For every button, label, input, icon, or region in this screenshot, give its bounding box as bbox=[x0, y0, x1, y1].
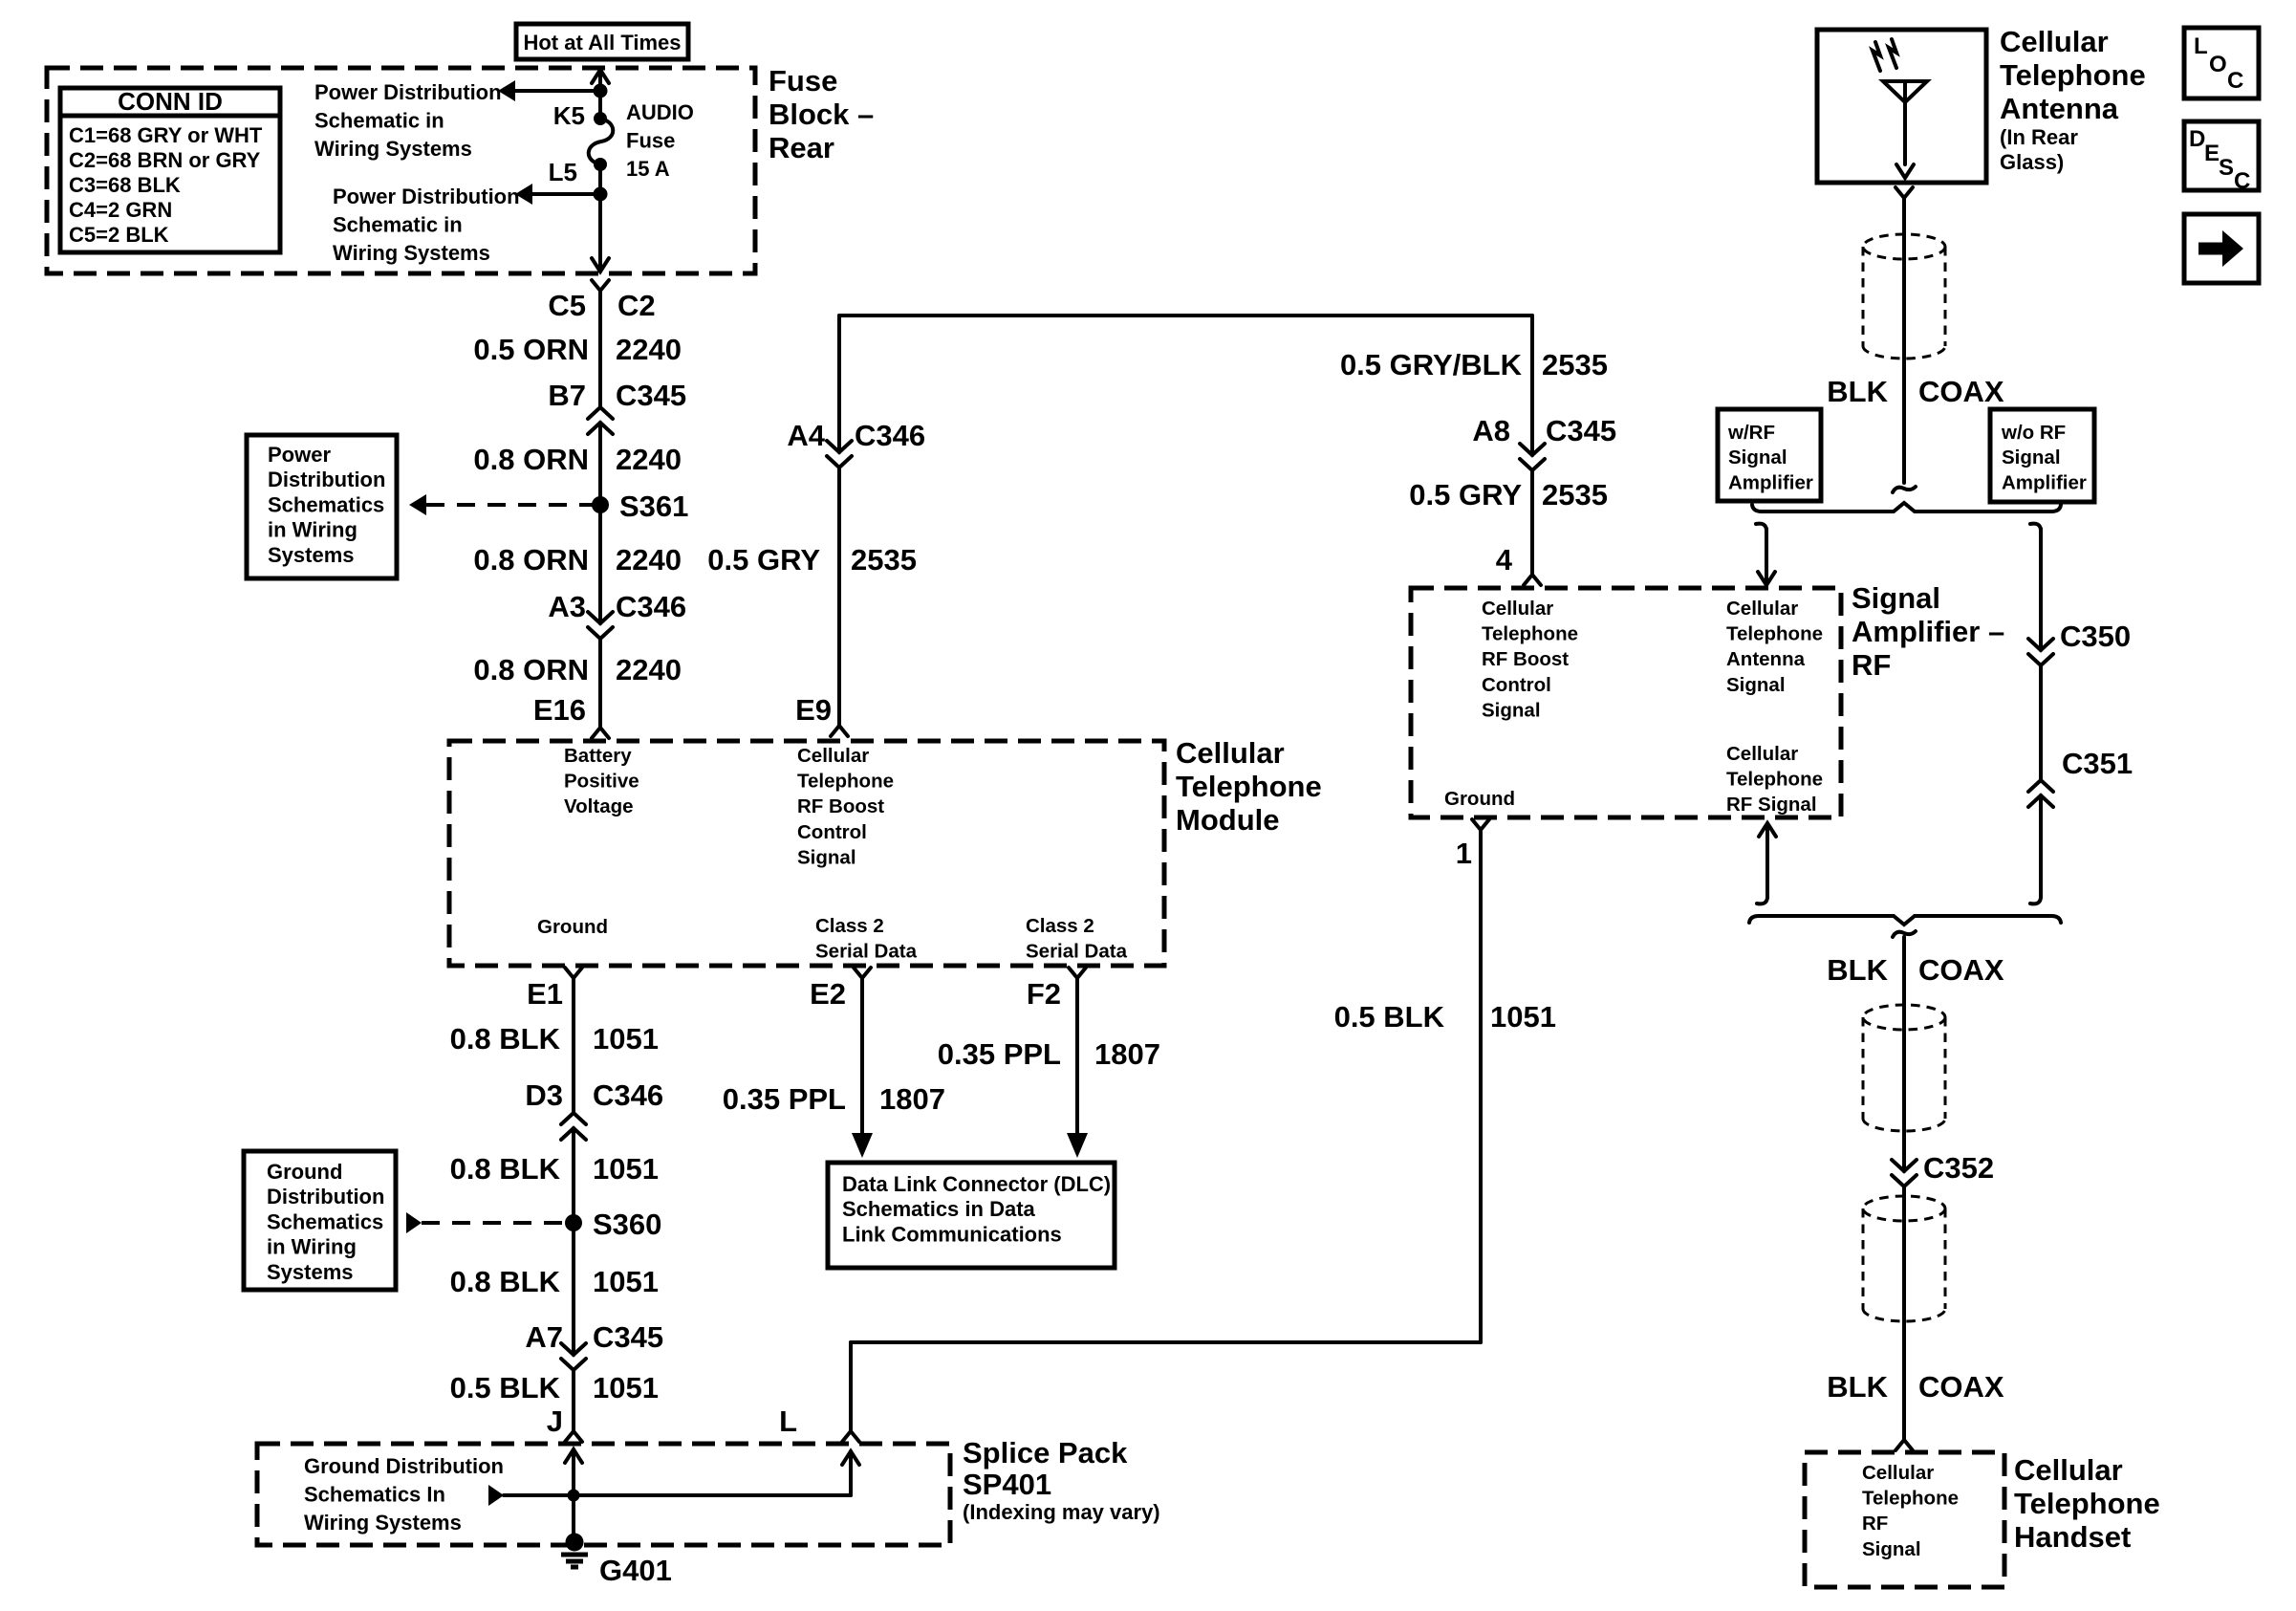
svg-text:0.8 BLK: 0.8 BLK bbox=[450, 1152, 561, 1186]
svg-text:S: S bbox=[2219, 155, 2234, 181]
svg-text:2240: 2240 bbox=[616, 443, 682, 476]
top coax brace bbox=[1752, 503, 2061, 512]
svg-text:Power Distribution: Power Distribution bbox=[333, 185, 520, 208]
connector C351 symbol bbox=[2028, 780, 2053, 807]
svg-text:0.8 BLK: 0.8 BLK bbox=[450, 1265, 561, 1298]
S360 dashed reference line bbox=[406, 1212, 422, 1233]
connector C346 symbol A4 bbox=[827, 441, 852, 468]
svg-text:Power Distribution: Power Distribution bbox=[314, 80, 502, 104]
junction dot bbox=[594, 84, 608, 98]
terminal K5 dot bbox=[594, 112, 607, 125]
svg-text:Telephone: Telephone bbox=[2000, 58, 2146, 92]
svg-text:1051: 1051 bbox=[1490, 1000, 1556, 1034]
connector C352 symbol bbox=[1892, 1160, 1917, 1186]
bypass branch upper bbox=[2030, 524, 2041, 536]
svg-text:E16: E16 bbox=[533, 693, 586, 727]
wire E9 riser bbox=[837, 316, 841, 452]
svg-text:1051: 1051 bbox=[593, 1371, 659, 1404]
svg-text:AUDIO: AUDIO bbox=[626, 100, 694, 124]
ground distribution schematics side box bbox=[244, 1151, 396, 1290]
conn id table bbox=[60, 88, 280, 252]
svg-text:C2: C2 bbox=[617, 289, 656, 322]
svg-text:Antenna: Antenna bbox=[1726, 648, 1806, 670]
svg-text:Power: Power bbox=[268, 443, 331, 467]
cellular telephone antenna box bbox=[1817, 30, 1986, 183]
w/RF signal amplifier box bbox=[1718, 409, 1821, 501]
antenna coax flare bbox=[1895, 187, 1913, 198]
svg-text:Distribution: Distribution bbox=[268, 468, 385, 491]
wire E2 serial data bbox=[860, 978, 864, 1135]
svg-text:A3: A3 bbox=[548, 590, 586, 623]
svg-text:CONN ID: CONN ID bbox=[118, 87, 223, 116]
svg-text:S361: S361 bbox=[619, 490, 688, 523]
svg-text:0.8 ORN: 0.8 ORN bbox=[473, 543, 589, 577]
svg-text:C345: C345 bbox=[616, 379, 686, 412]
svg-text:Fuse: Fuse bbox=[769, 64, 837, 98]
svg-text:E2: E2 bbox=[810, 977, 846, 1011]
wire 0.5 ORN 2240 bbox=[598, 291, 602, 407]
pin L flare bbox=[842, 1431, 859, 1442]
pin E16 flare bbox=[592, 728, 609, 738]
svg-text:C345: C345 bbox=[593, 1320, 663, 1354]
svg-text:in Wiring: in Wiring bbox=[268, 518, 357, 542]
splice S361 dot bbox=[592, 496, 609, 513]
svg-text:Block –: Block – bbox=[769, 98, 874, 131]
svg-text:Schematics: Schematics bbox=[267, 1209, 383, 1233]
svg-text:C4=2 GRN: C4=2 GRN bbox=[69, 198, 172, 222]
svg-text:Cellular: Cellular bbox=[1726, 743, 1798, 765]
splice pack L riser bbox=[849, 1451, 853, 1495]
handset coax wire lower bbox=[1902, 1186, 1906, 1440]
connector C345 symbol A8 bbox=[1520, 444, 1545, 470]
svg-text:Wiring Systems: Wiring Systems bbox=[314, 137, 472, 161]
svg-text:COAX: COAX bbox=[1918, 953, 2004, 987]
svg-text:Serial Data: Serial Data bbox=[815, 941, 918, 963]
S361 dashed reference line bbox=[409, 494, 426, 515]
antenna coax wire bbox=[1902, 198, 1906, 483]
svg-text:A8: A8 bbox=[1472, 414, 1510, 447]
svg-text:Schematic in: Schematic in bbox=[314, 108, 444, 132]
wire E9 top horizontal bbox=[839, 314, 1532, 317]
antenna symbol bbox=[1883, 81, 1927, 164]
svg-text:w/RF: w/RF bbox=[1727, 422, 1775, 444]
svg-text:Control: Control bbox=[797, 821, 867, 843]
ground G401 symbol bbox=[561, 1553, 588, 1557]
wire leaving fuse block bbox=[598, 194, 602, 272]
svg-text:1051: 1051 bbox=[593, 1265, 659, 1298]
terminal L5 dot bbox=[594, 158, 607, 171]
svg-text:COAX: COAX bbox=[1918, 375, 2004, 408]
svg-text:Class 2: Class 2 bbox=[815, 915, 884, 937]
splice pack bus arrow bbox=[488, 1485, 504, 1506]
svg-text:Hot at All Times: Hot at All Times bbox=[523, 31, 681, 54]
wire 0.8 ORN 2240 lower bbox=[598, 639, 602, 728]
svg-text:Telephone: Telephone bbox=[1862, 1488, 1959, 1510]
pin E1 flare bbox=[565, 968, 582, 978]
svg-text:1051: 1051 bbox=[593, 1152, 659, 1186]
handset coax squiggle bbox=[1893, 931, 1916, 937]
svg-text:Cellular: Cellular bbox=[1176, 736, 1285, 770]
svg-text:2240: 2240 bbox=[616, 543, 682, 577]
pin 4 flare bbox=[1524, 575, 1541, 585]
amp pin 1 flare bbox=[1472, 819, 1489, 830]
svg-text:0.8 ORN: 0.8 ORN bbox=[473, 443, 589, 476]
svg-text:Signal: Signal bbox=[1728, 446, 1787, 468]
svg-text:15 A: 15 A bbox=[626, 157, 670, 181]
svg-text:SP401: SP401 bbox=[963, 1468, 1051, 1501]
svg-text:2535: 2535 bbox=[1542, 348, 1608, 381]
splice pack bus bbox=[504, 1493, 851, 1497]
wire 0.5 GRY 2535 right bbox=[1530, 470, 1534, 575]
svg-text:w/o RF: w/o RF bbox=[2001, 422, 2066, 444]
wire 0.8 ORN 2240 mid bbox=[598, 505, 602, 623]
loc box bbox=[2184, 28, 2259, 98]
pin F2 flare bbox=[1069, 968, 1086, 978]
svg-text:Voltage: Voltage bbox=[564, 795, 634, 817]
svg-text:Ground: Ground bbox=[1444, 788, 1515, 810]
svg-text:Battery: Battery bbox=[564, 745, 632, 767]
svg-text:C3=68 BLK: C3=68 BLK bbox=[69, 173, 181, 197]
power distribution reference arrow 1 bbox=[498, 80, 515, 101]
svg-text:0.35 PPL: 0.35 PPL bbox=[938, 1037, 1061, 1071]
svg-text:F2: F2 bbox=[1027, 977, 1061, 1011]
svg-text:Distribution: Distribution bbox=[267, 1185, 384, 1208]
svg-text:0.5 GRY: 0.5 GRY bbox=[1409, 478, 1522, 512]
svg-text:Schematics: Schematics bbox=[268, 492, 384, 516]
svg-text:Glass): Glass) bbox=[2000, 150, 2064, 174]
svg-text:Rear: Rear bbox=[769, 131, 834, 164]
svg-text:Class 2: Class 2 bbox=[1026, 915, 1094, 937]
svg-text:L: L bbox=[779, 1404, 797, 1438]
svg-text:C346: C346 bbox=[855, 419, 925, 452]
handset pin flare bbox=[1895, 1440, 1913, 1450]
splice pack junction dot bbox=[568, 1490, 580, 1502]
rf signal pin arrow bbox=[1765, 827, 1769, 895]
cellular telephone handset dashed box bbox=[1805, 1452, 2004, 1587]
svg-text:Antenna: Antenna bbox=[2000, 92, 2119, 125]
connector C350 symbol bbox=[2028, 639, 2053, 665]
svg-text:Telephone: Telephone bbox=[1482, 623, 1578, 645]
F2 arrow into DLC bbox=[1067, 1133, 1088, 1158]
splice S360 dot bbox=[565, 1214, 582, 1231]
svg-text:Schematics In: Schematics In bbox=[304, 1483, 445, 1507]
connector C346 symbol D3 bbox=[561, 1113, 586, 1140]
svg-text:C: C bbox=[2234, 168, 2250, 194]
svg-text:Wiring Systems: Wiring Systems bbox=[333, 241, 490, 265]
svg-text:Amplifier –: Amplifier – bbox=[1852, 615, 2004, 648]
wire 0.5 GRY 2535 bbox=[837, 468, 841, 726]
connector C5/C2 flare bbox=[592, 280, 609, 291]
svg-text:Link Communications: Link Communications bbox=[842, 1222, 1062, 1246]
svg-text:L: L bbox=[2194, 33, 2208, 59]
svg-text:C352: C352 bbox=[1923, 1151, 1994, 1185]
svg-text:C: C bbox=[2227, 68, 2243, 94]
pin J flare bbox=[565, 1431, 582, 1442]
svg-text:Signal: Signal bbox=[1726, 674, 1786, 696]
svg-text:K5: K5 bbox=[553, 101, 585, 130]
svg-text:C2=68 BRN or GRY: C2=68 BRN or GRY bbox=[69, 148, 261, 172]
pin E9 flare bbox=[831, 726, 848, 736]
svg-text:2535: 2535 bbox=[1542, 478, 1608, 512]
connector C346 symbol bbox=[588, 612, 613, 639]
svg-text:Cellular: Cellular bbox=[2014, 1453, 2123, 1487]
wire from fuse to junction bbox=[598, 164, 602, 194]
bottom coax brace bbox=[1749, 916, 2061, 925]
ground G401 dot bbox=[566, 1534, 584, 1552]
svg-text:Cellular: Cellular bbox=[1726, 598, 1798, 620]
coax shield cylinder bottom bbox=[1863, 1196, 1945, 1221]
svg-text:D3: D3 bbox=[525, 1078, 563, 1112]
svg-text:Cellular: Cellular bbox=[2000, 25, 2109, 58]
desc box bbox=[2184, 121, 2259, 190]
svg-text:0.5 BLK: 0.5 BLK bbox=[1334, 1000, 1445, 1034]
svg-text:E: E bbox=[2204, 141, 2220, 166]
svg-text:BLK: BLK bbox=[1827, 375, 1888, 408]
svg-text:0.8 ORN: 0.8 ORN bbox=[473, 653, 589, 686]
svg-text:Amplifier: Amplifier bbox=[2002, 471, 2087, 493]
svg-text:Fuse: Fuse bbox=[626, 128, 675, 152]
svg-text:2240: 2240 bbox=[616, 653, 682, 686]
svg-text:RF Boost: RF Boost bbox=[797, 795, 884, 817]
svg-text:Signal: Signal bbox=[1482, 699, 1541, 721]
svg-text:Telephone: Telephone bbox=[1176, 770, 1322, 803]
svg-text:Systems: Systems bbox=[268, 543, 355, 567]
svg-text:Module: Module bbox=[1176, 803, 1280, 837]
cellular telephone module dashed box bbox=[449, 741, 1164, 966]
svg-text:RF: RF bbox=[1862, 1513, 1888, 1535]
svg-text:1807: 1807 bbox=[879, 1082, 945, 1116]
svg-text:Telephone: Telephone bbox=[1726, 769, 1823, 791]
svg-text:0.5 GRY: 0.5 GRY bbox=[707, 543, 820, 577]
wire F2 serial data bbox=[1075, 978, 1079, 1135]
svg-text:0.8 BLK: 0.8 BLK bbox=[450, 1022, 561, 1056]
svg-text:C346: C346 bbox=[593, 1078, 663, 1112]
svg-text:2240: 2240 bbox=[616, 333, 682, 366]
svg-text:G401: G401 bbox=[599, 1554, 672, 1587]
svg-text:Telephone: Telephone bbox=[797, 771, 894, 793]
arrow box bbox=[2184, 214, 2259, 283]
signal amplifier rf dashed box bbox=[1411, 588, 1841, 817]
svg-text:L5: L5 bbox=[549, 158, 577, 186]
wire to fuse terminal K5 bbox=[598, 91, 602, 119]
data link connector box bbox=[828, 1163, 1115, 1268]
svg-text:Schematic in: Schematic in bbox=[333, 212, 463, 236]
svg-text:C351: C351 bbox=[2062, 747, 2133, 780]
svg-text:RF: RF bbox=[1852, 648, 1891, 682]
svg-text:Ground: Ground bbox=[267, 1160, 342, 1184]
svg-text:BLK: BLK bbox=[1827, 953, 1888, 987]
svg-text:C346: C346 bbox=[616, 590, 686, 623]
hot at all times box bbox=[516, 24, 688, 59]
svg-text:(Indexing may vary): (Indexing may vary) bbox=[963, 1500, 1160, 1524]
fuse AUDIO 15A symbol bbox=[589, 119, 614, 164]
svg-text:RF Signal: RF Signal bbox=[1726, 794, 1817, 816]
svg-text:Ground Distribution: Ground Distribution bbox=[304, 1454, 504, 1478]
svg-text:RF Boost: RF Boost bbox=[1482, 648, 1569, 670]
svg-text:B7: B7 bbox=[548, 379, 586, 412]
svg-text:Signal: Signal bbox=[1862, 1538, 1921, 1560]
svg-text:0.5 ORN: 0.5 ORN bbox=[473, 333, 589, 366]
svg-text:0.5 GRY/BLK: 0.5 GRY/BLK bbox=[1340, 348, 1523, 381]
handset coax wire upper bbox=[1902, 937, 1906, 1171]
svg-text:Schematics in Data: Schematics in Data bbox=[842, 1197, 1036, 1221]
svg-text:Telephone: Telephone bbox=[2014, 1487, 2160, 1520]
coax shield cylinder mid bbox=[1863, 1005, 1945, 1030]
svg-text:C1=68 GRY or WHT: C1=68 GRY or WHT bbox=[69, 123, 263, 147]
svg-text:Positive: Positive bbox=[564, 771, 639, 793]
antenna signal branch arrow bbox=[1756, 524, 1766, 536]
svg-text:Splice Pack: Splice Pack bbox=[963, 1436, 1128, 1469]
w/o RF signal amplifier box bbox=[1990, 409, 2094, 502]
svg-text:Ground: Ground bbox=[537, 916, 608, 938]
svg-text:Cellular: Cellular bbox=[1862, 1462, 1934, 1484]
svg-text:A4: A4 bbox=[787, 419, 825, 452]
svg-text:1051: 1051 bbox=[593, 1022, 659, 1056]
svg-text:Signal: Signal bbox=[2002, 446, 2061, 468]
bypass wire mid bbox=[2039, 665, 2043, 780]
svg-text:E9: E9 bbox=[795, 693, 832, 727]
svg-text:E1: E1 bbox=[527, 977, 563, 1011]
svg-text:Signal: Signal bbox=[797, 846, 856, 868]
splice pack SP401 dashed box bbox=[257, 1444, 950, 1545]
svg-text:Telephone: Telephone bbox=[1726, 623, 1823, 645]
pin E2 flare bbox=[854, 968, 871, 978]
svg-text:(In Rear: (In Rear bbox=[2000, 125, 2078, 149]
coax end squiggle top bbox=[1893, 487, 1916, 492]
svg-text:1807: 1807 bbox=[1094, 1037, 1160, 1071]
svg-text:C5=2 BLK: C5=2 BLK bbox=[69, 223, 169, 247]
bypass wire lower bbox=[2039, 795, 2043, 895]
svg-text:C345: C345 bbox=[1546, 414, 1616, 447]
junction dot 2 bbox=[594, 187, 608, 202]
connector C345 symbol bbox=[588, 407, 613, 434]
amp ground wire bbox=[849, 1342, 853, 1431]
svg-text:Serial Data: Serial Data bbox=[1026, 941, 1128, 963]
wire 0.8 BLK 1051 r1 bbox=[572, 978, 575, 1113]
svg-text:in Wiring: in Wiring bbox=[267, 1235, 357, 1259]
power distribution reference arrow 2 bbox=[515, 184, 532, 205]
wire 0.8 ORN 2240 upper bbox=[598, 423, 602, 505]
svg-text:2535: 2535 bbox=[851, 543, 917, 577]
svg-text:O: O bbox=[2209, 52, 2227, 77]
power distribution schematics side box bbox=[247, 435, 397, 578]
splice pack J riser bbox=[572, 1449, 575, 1543]
wire 0.8 BLK 1051 r2 bbox=[572, 1128, 575, 1355]
svg-text:Systems: Systems bbox=[267, 1260, 354, 1284]
svg-text:C5: C5 bbox=[548, 289, 586, 322]
svg-text:1: 1 bbox=[1456, 837, 1472, 870]
wire 0.5 BLK 1051 bbox=[572, 1370, 575, 1431]
fuse block - rear dashed box bbox=[47, 68, 755, 273]
svg-text:D: D bbox=[2189, 126, 2205, 152]
wire 0.5 GRY/BLK riser bbox=[1530, 316, 1534, 455]
svg-text:Cellular: Cellular bbox=[797, 745, 869, 767]
svg-text:Handset: Handset bbox=[2014, 1520, 2131, 1554]
svg-text:4: 4 bbox=[1496, 543, 1513, 577]
svg-text:S360: S360 bbox=[593, 1208, 661, 1241]
svg-text:Amplifier: Amplifier bbox=[1728, 471, 1813, 493]
coax shield cylinder top bbox=[1863, 234, 1945, 259]
svg-text:J: J bbox=[547, 1404, 563, 1438]
wire from hot at all times into fuse block bbox=[598, 70, 602, 91]
E2 arrow into DLC bbox=[852, 1133, 873, 1158]
svg-text:Control: Control bbox=[1482, 674, 1551, 696]
svg-text:Signal: Signal bbox=[1852, 581, 1940, 615]
svg-text:Wiring Systems: Wiring Systems bbox=[304, 1511, 462, 1535]
connector C345 symbol A7 bbox=[561, 1343, 586, 1370]
svg-text:COAX: COAX bbox=[1918, 1370, 2004, 1404]
svg-text:C350: C350 bbox=[2060, 620, 2131, 653]
svg-text:0.35 PPL: 0.35 PPL bbox=[723, 1082, 846, 1116]
svg-text:BLK: BLK bbox=[1827, 1370, 1888, 1404]
svg-text:A7: A7 bbox=[525, 1320, 563, 1354]
svg-text:Data Link Connector (DLC): Data Link Connector (DLC) bbox=[842, 1172, 1111, 1196]
svg-text:Cellular: Cellular bbox=[1482, 598, 1553, 620]
svg-text:0.5 BLK: 0.5 BLK bbox=[450, 1371, 561, 1404]
